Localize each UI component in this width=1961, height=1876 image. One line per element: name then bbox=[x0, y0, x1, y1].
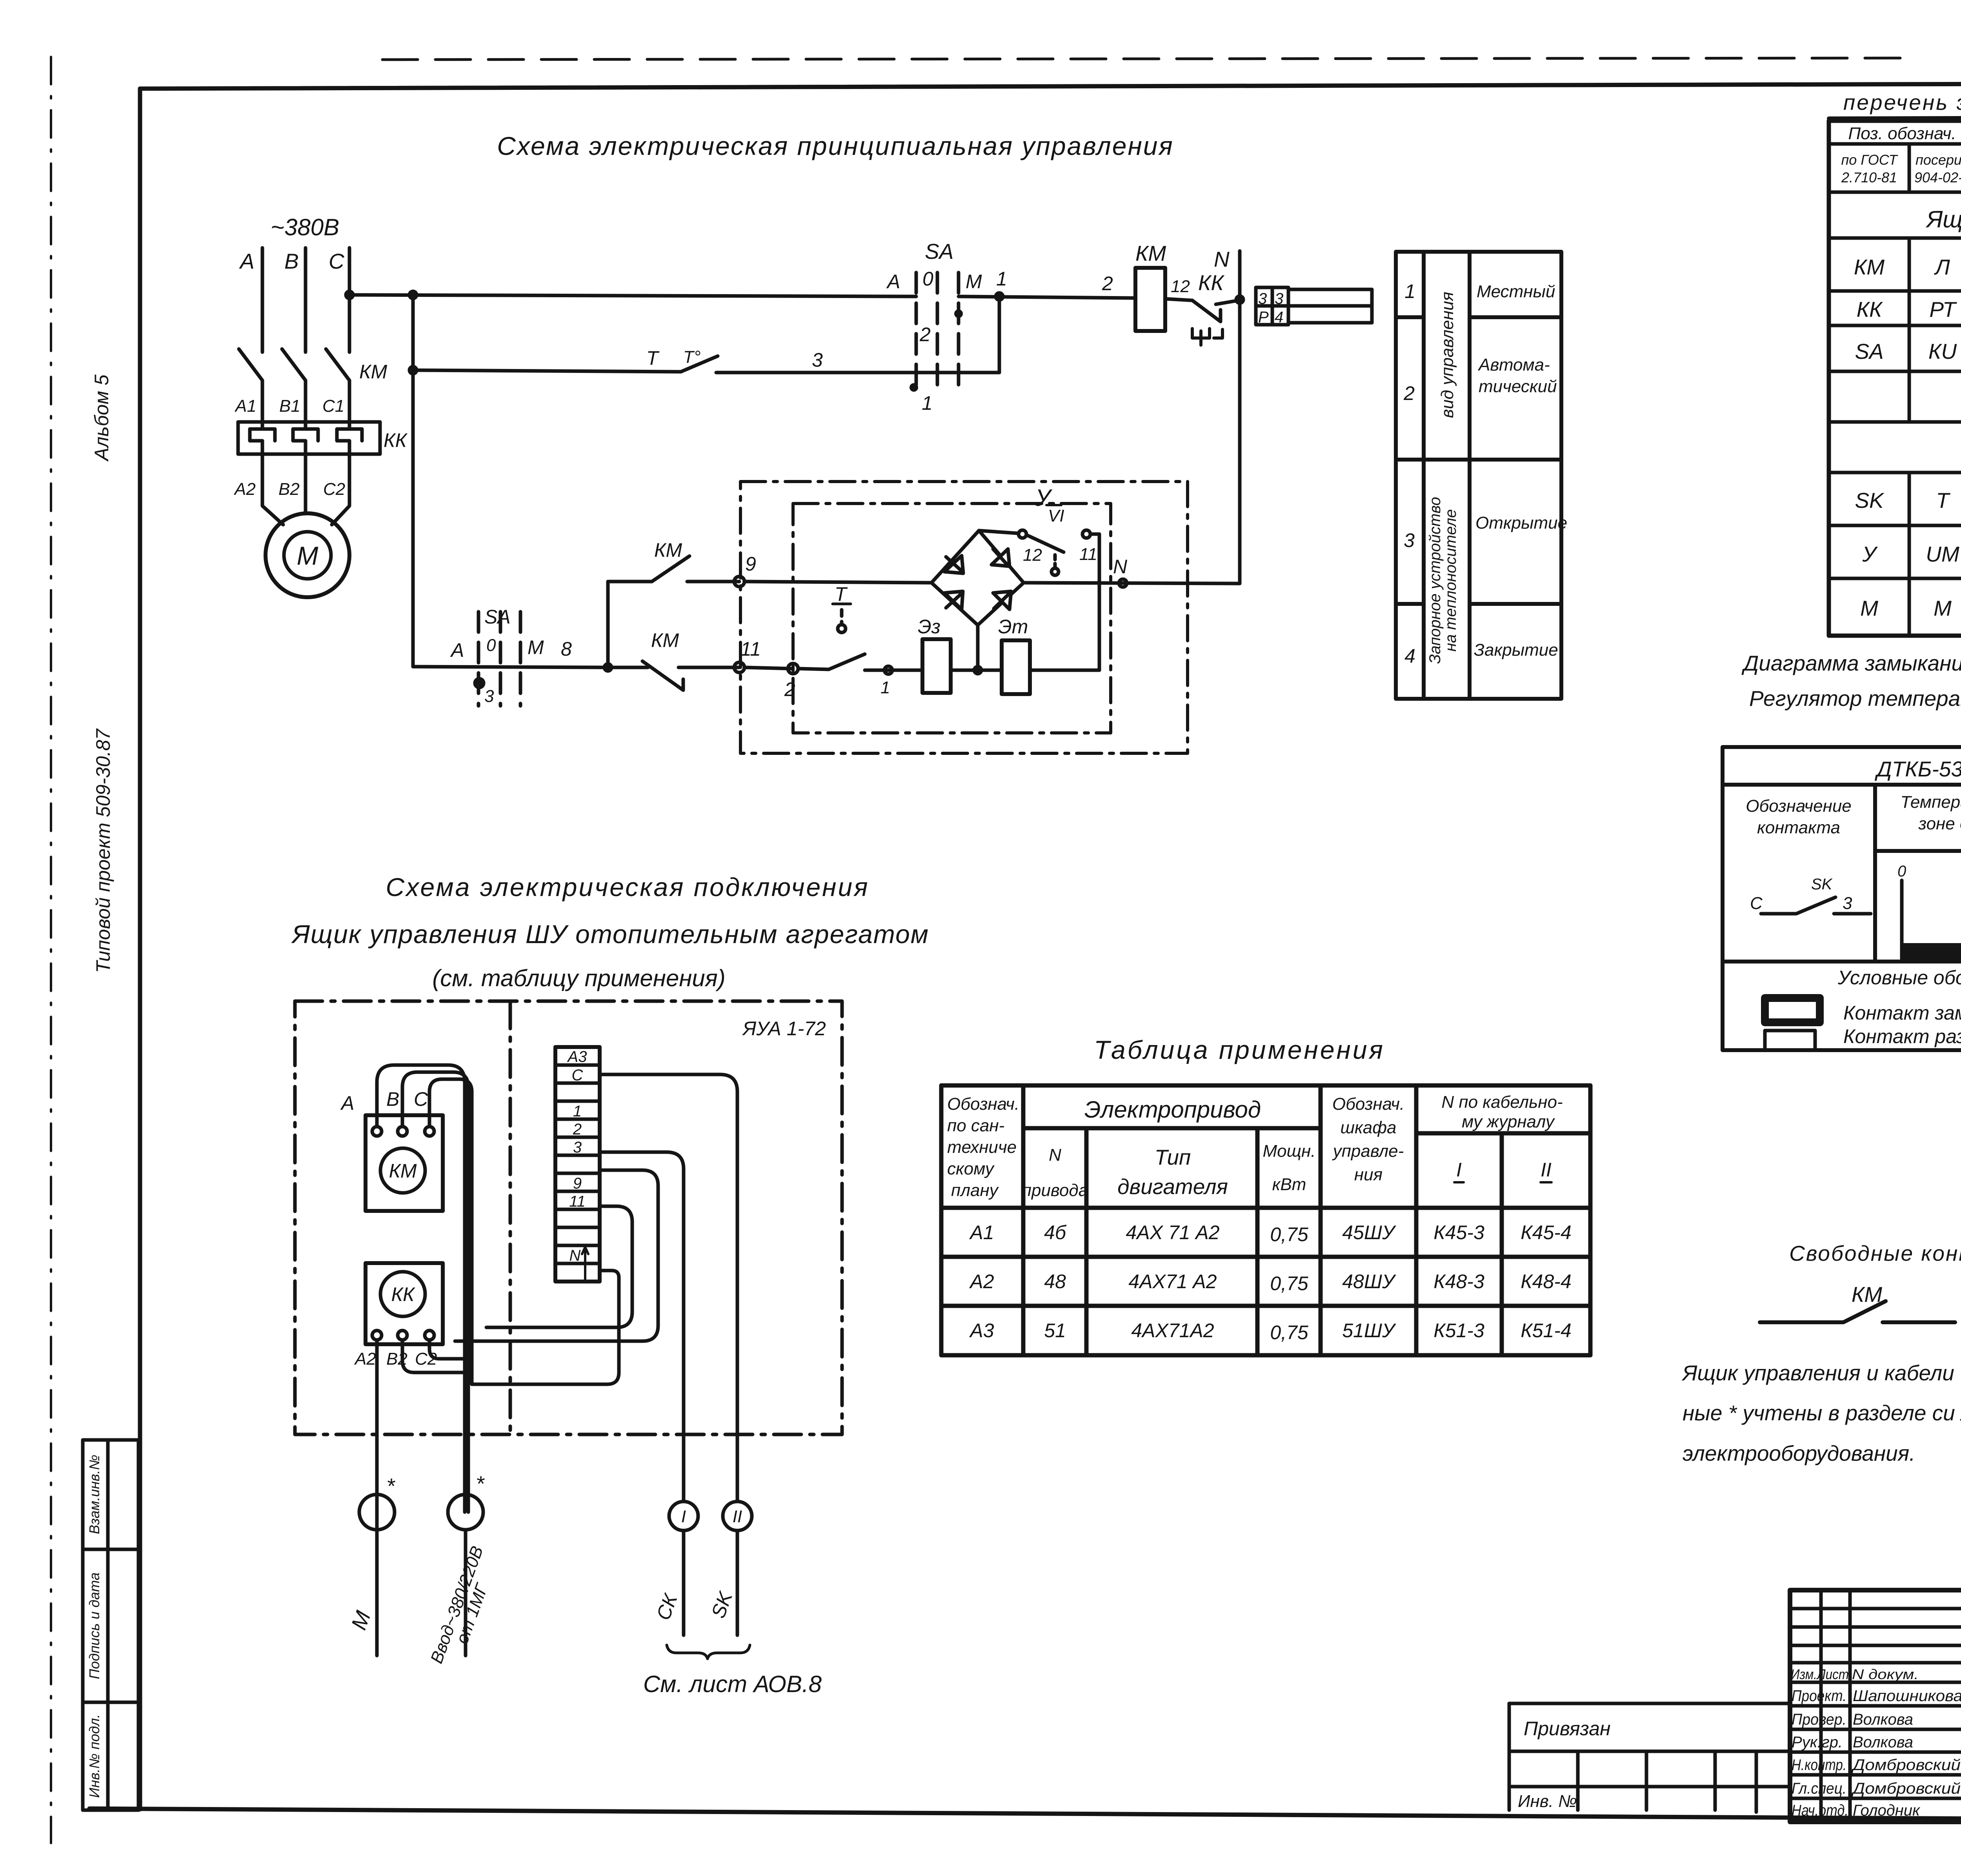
svg-text:II: II bbox=[1541, 1159, 1552, 1181]
svg-text:Т: Т bbox=[646, 347, 660, 369]
svg-text:ЯУА 1-72: ЯУА 1-72 bbox=[742, 1018, 826, 1040]
labels A B C bbox=[340, 1088, 428, 1114]
svg-text:КК: КК bbox=[384, 429, 407, 451]
svg-text:КМ: КМ bbox=[651, 629, 679, 651]
svg-text:4: 4 bbox=[1275, 309, 1283, 326]
svg-text:по сан-: по сан- bbox=[947, 1116, 1004, 1135]
svg-text:А: А bbox=[886, 271, 900, 293]
svg-text:N: N bbox=[1113, 556, 1128, 578]
label T bbox=[646, 347, 700, 369]
label T device bbox=[835, 583, 848, 605]
svg-text:К45-3: К45-3 bbox=[1433, 1222, 1484, 1243]
device U inner boundary (dash-dot) bbox=[793, 504, 1111, 733]
svg-text:Домбровский: Домбровский bbox=[1851, 1780, 1961, 1797]
svg-text:SK: SK bbox=[1811, 876, 1833, 893]
wire KM phase B to supply bbox=[402, 1072, 468, 1294]
svg-text:Домбровский: Домбровский bbox=[1851, 1756, 1961, 1774]
thermostat contact T (SK) bbox=[413, 356, 999, 373]
svg-text:Подпись и дата: Подпись и дата bbox=[86, 1572, 102, 1679]
svg-text:9: 9 bbox=[745, 553, 756, 575]
wire number 3 bbox=[812, 349, 823, 371]
wire phase A lower bbox=[261, 454, 264, 499]
svg-text:Изм.Лист: Изм.Лист bbox=[1791, 1666, 1849, 1682]
svg-text:М: М bbox=[1860, 596, 1878, 620]
wire lower horizontal to KM contacts bbox=[413, 664, 611, 671]
wire riser to VI contact bbox=[1098, 534, 1101, 670]
svg-text:Открытие: Открытие bbox=[1475, 513, 1567, 533]
svg-text:А: А bbox=[239, 249, 255, 273]
svg-text:(см. таблицу применения): (см. таблицу применения) bbox=[432, 965, 725, 991]
label 11v bbox=[1079, 545, 1097, 564]
svg-text:Гл.спец.: Гл.спец. bbox=[1792, 1780, 1846, 1797]
svg-text:N по кабельно-: N по кабельно- bbox=[1441, 1093, 1563, 1112]
SA II position labels bbox=[450, 636, 572, 706]
svg-text:контакта: контакта bbox=[1757, 818, 1840, 837]
svg-text:А: А bbox=[450, 639, 464, 661]
label VI bbox=[1046, 505, 1064, 525]
thermal relay KK heaters box bbox=[238, 422, 380, 454]
svg-text:I: I bbox=[681, 1507, 686, 1526]
svg-text:Таблица применения: Таблица применения bbox=[1094, 1035, 1385, 1064]
svg-text:А2: А2 bbox=[354, 1349, 376, 1369]
svg-text:0,75: 0,75 bbox=[1270, 1272, 1308, 1294]
svg-text:3: 3 bbox=[573, 1139, 582, 1156]
svg-text:двигателя: двигателя bbox=[1117, 1174, 1228, 1199]
svg-text:КU: КU bbox=[1928, 339, 1957, 364]
cabinet internal partition (dash-dot) bbox=[509, 1001, 512, 1434]
strip N arrow bbox=[582, 1247, 588, 1279]
svg-text:Провер.: Провер. bbox=[1792, 1711, 1846, 1728]
svg-text:Поз. обознач.: Поз. обознач. bbox=[1848, 124, 1956, 143]
label KM coil bbox=[1135, 241, 1166, 265]
svg-text:У: У bbox=[1862, 542, 1878, 566]
label KM aux NO bbox=[654, 539, 682, 561]
node A1 label bbox=[234, 396, 256, 416]
svg-text:Н.контр.: Н.контр. bbox=[1792, 1756, 1846, 1774]
svg-text:РТ: РТ bbox=[1929, 297, 1957, 322]
svg-text:Л: Л bbox=[1934, 255, 1950, 279]
svg-text:3: 3 bbox=[1258, 290, 1267, 307]
svg-text:К48-4: К48-4 bbox=[1521, 1271, 1572, 1292]
svg-text:1: 1 bbox=[996, 268, 1007, 290]
svg-text:9: 9 bbox=[573, 1175, 582, 1192]
contactor KM main contact pole B bbox=[282, 349, 306, 422]
wire KM phase C to supply bbox=[429, 1079, 472, 1294]
svg-text:11: 11 bbox=[569, 1193, 586, 1210]
svg-text:48: 48 bbox=[1044, 1271, 1066, 1292]
node A phase label bbox=[239, 249, 255, 273]
coil ET bbox=[1002, 640, 1030, 694]
wire left long drop to lower SA bbox=[411, 370, 415, 667]
svg-text:*: * bbox=[476, 1471, 485, 1496]
cable marker box 3/P 3/4 bbox=[1256, 287, 1372, 325]
APPLICATION-TABLE bbox=[1094, 1035, 1385, 1064]
svg-text:1: 1 bbox=[880, 678, 890, 697]
svg-text:Обозначение: Обозначение bbox=[1746, 796, 1852, 816]
SCHEMATIC-1 title bbox=[497, 131, 1173, 160]
label KK contact bbox=[1198, 271, 1224, 295]
DTKB legend bbox=[1837, 967, 1961, 1047]
svg-text:Рук.гр.: Рук.гр. bbox=[1792, 1734, 1843, 1751]
label EZ bbox=[918, 616, 940, 638]
MARGIN-TABLE bbox=[83, 1440, 138, 1810]
label KK heaters bbox=[384, 429, 407, 451]
MARGIN-TEXT bbox=[91, 57, 1961, 973]
svg-text:2: 2 bbox=[573, 1121, 582, 1138]
svg-text:Типовой проект 509-30.87: Типовой проект 509-30.87 bbox=[92, 728, 114, 973]
svg-text:К48-3: К48-3 bbox=[1433, 1271, 1484, 1292]
svg-text:Шапошникова: Шапошникова bbox=[1853, 1687, 1961, 1705]
switch T in device (manual) bbox=[829, 604, 865, 669]
strip terminal labels bbox=[567, 1048, 587, 1264]
svg-text:3: 3 bbox=[1843, 894, 1852, 913]
wire branch to T-contact line bbox=[409, 295, 417, 374]
label ET bbox=[998, 616, 1028, 638]
svg-text:Запорное устройство: Запорное устройство bbox=[1426, 497, 1444, 664]
SA contact position dots bbox=[910, 309, 963, 392]
wire number 2 bbox=[1102, 273, 1113, 294]
net ~380V label bbox=[271, 214, 339, 240]
svg-text:~380В: ~380В bbox=[271, 214, 339, 240]
svg-text:*: * bbox=[386, 1474, 395, 1498]
svg-text:II: II bbox=[733, 1507, 742, 1526]
cable II circle bbox=[723, 1502, 752, 1635]
svg-text:11: 11 bbox=[740, 638, 761, 660]
svg-text:Т: Т bbox=[835, 583, 848, 605]
svg-text:904-02-9: 904-02-9 bbox=[1914, 169, 1961, 185]
svg-text:1: 1 bbox=[1404, 280, 1415, 302]
contactor KM aux NO contact (9 line) bbox=[608, 556, 739, 582]
wire number 12 bbox=[1171, 277, 1190, 296]
rotated labels CK SK bbox=[652, 1588, 737, 1623]
svg-text:0: 0 bbox=[1897, 863, 1906, 880]
svg-text:скому: скому bbox=[947, 1159, 995, 1178]
label KM main contacts bbox=[359, 361, 387, 383]
NOTE-PARAGRAPH bbox=[1681, 1361, 1961, 1465]
svg-text:А2: А2 bbox=[233, 480, 256, 499]
svg-text:UМ: UМ bbox=[1926, 542, 1959, 566]
svg-text:Контакт замкнут: Контакт замкнут bbox=[1843, 1002, 1961, 1024]
svg-text:В: В bbox=[284, 249, 299, 273]
DTKB contact symbol C-SK-3 bbox=[1761, 897, 1871, 914]
label SA bbox=[925, 239, 953, 264]
wire ET to riser bbox=[1030, 669, 1099, 672]
svg-text:Т: Т bbox=[1936, 488, 1950, 513]
svg-text:Волкова: Волкова bbox=[1853, 1711, 1913, 1728]
wire C2 to motor bbox=[332, 499, 349, 525]
supply cable marker circle bbox=[448, 1494, 483, 1656]
svg-text:2: 2 bbox=[1102, 273, 1113, 294]
wire KK B2 bundle bbox=[402, 1340, 472, 1372]
svg-text:3: 3 bbox=[1404, 529, 1415, 551]
free contact KM symbol bbox=[1760, 1301, 1955, 1322]
svg-text:Контакт разомкнут: Контакт разомкнут bbox=[1843, 1025, 1961, 1047]
svg-text:0,75: 0,75 bbox=[1270, 1223, 1308, 1245]
svg-text:К45-4: К45-4 bbox=[1521, 1222, 1572, 1243]
wire riser to 9-line bbox=[606, 582, 610, 667]
wire phase B upper bbox=[304, 248, 307, 352]
svg-text:Взам.инв.№: Взам.инв.№ bbox=[86, 1455, 102, 1534]
svg-text:Обознач.: Обознач. bbox=[1332, 1094, 1404, 1114]
svg-text:М: М bbox=[528, 636, 544, 658]
svg-text:Т°: Т° bbox=[683, 347, 700, 367]
contactor KM aux NC contact (11 line) bbox=[608, 661, 739, 690]
wire bundle down right of KK bbox=[468, 1294, 472, 1512]
wire KK C2 bundle bbox=[429, 1340, 472, 1359]
wire bridge top to VI contact bbox=[979, 530, 1026, 538]
wire bridge bottom to EZ/ET mid bbox=[976, 625, 980, 670]
label N bbox=[1214, 247, 1230, 271]
svg-text:45ШУ: 45ШУ bbox=[1342, 1222, 1397, 1243]
wire A2 to motor bbox=[262, 499, 283, 525]
svg-text:SA: SA bbox=[484, 606, 511, 628]
svg-text:1: 1 bbox=[573, 1103, 582, 1120]
SA II position dot bbox=[475, 679, 484, 687]
wire EZ to ET bbox=[951, 667, 1002, 674]
svg-text:I: I bbox=[1456, 1159, 1462, 1181]
motor cable marker circle bbox=[359, 1494, 395, 1656]
svg-text:Электропривод: Электропривод bbox=[1084, 1096, 1261, 1123]
svg-text:КМ: КМ bbox=[389, 1160, 417, 1182]
svg-text:М: М bbox=[346, 1608, 375, 1633]
label N terminal bbox=[1113, 556, 1128, 578]
limit switch VI contact bbox=[1026, 530, 1099, 575]
terminal 1 bbox=[865, 666, 922, 674]
svg-text:3: 3 bbox=[1275, 290, 1283, 307]
svg-text:Привязан: Привязан bbox=[1524, 1718, 1611, 1740]
wire B2 to motor bbox=[304, 499, 307, 514]
contactor coil KM bbox=[1135, 268, 1165, 331]
svg-text:Волкова: Волкова bbox=[1853, 1734, 1913, 1751]
DIAGRAM-DTKB table bbox=[1741, 651, 1961, 711]
svg-text:С: С bbox=[1750, 894, 1763, 913]
TITLEBLOCK bbox=[1509, 1590, 1961, 1825]
wire control bus top (from phase C) bbox=[346, 291, 916, 298]
FREE-CONTACTS note bbox=[1789, 1241, 1961, 1307]
wire strip C to cable II bbox=[600, 1074, 737, 1502]
rotated label M bbox=[346, 1608, 375, 1633]
svg-text:N: N bbox=[569, 1247, 581, 1264]
label U bbox=[1035, 485, 1053, 511]
svg-text:ния: ния bbox=[1354, 1165, 1383, 1184]
labels A2 B2 C2 bbox=[354, 1349, 437, 1369]
svg-text:2: 2 bbox=[784, 678, 795, 700]
svg-text:В2: В2 bbox=[278, 480, 300, 499]
thermal relay KK NC contact bbox=[1165, 299, 1239, 345]
terminal 9 bbox=[734, 576, 931, 587]
svg-text:КМ: КМ bbox=[359, 361, 387, 383]
svg-text:на теплоносителе: на теплоносителе bbox=[1442, 509, 1459, 651]
svg-text:ные * учтены в разделе с: ные * учтены в разделе си лового bbox=[1683, 1401, 1961, 1425]
svg-text:управле-: управле- bbox=[1332, 1142, 1404, 1161]
node B phase label bbox=[284, 249, 299, 273]
asterisk marks bbox=[386, 1471, 485, 1498]
svg-text:Диаграмма замыкания контактов: Диаграмма замыкания контактов bbox=[1741, 651, 1961, 675]
wire KM phase A to supply bbox=[377, 1065, 465, 1512]
svg-text:КМ: КМ bbox=[1135, 241, 1166, 265]
wire bridge right to N bbox=[1024, 579, 1240, 587]
svg-text:См. лист АОВ.8: См. лист АОВ.8 bbox=[643, 1671, 822, 1697]
label YaUA 1-72 bbox=[742, 1018, 826, 1040]
wire phase C upper bbox=[348, 248, 351, 352]
svg-text:тический: тический bbox=[1479, 377, 1557, 396]
svg-text:Регулятор температуры SK: Регулятор температуры SK bbox=[1749, 686, 1961, 711]
svg-text:С: С bbox=[414, 1088, 428, 1110]
contactor KM main contact pole A bbox=[239, 349, 262, 422]
svg-text:КК: КК bbox=[391, 1283, 415, 1305]
svg-text:В: В bbox=[386, 1088, 399, 1110]
svg-text:перечень элементов принципи: перечень элементов принципиальной схемы … bbox=[1843, 90, 1961, 115]
cabinet YaUA boundary (dash-dot) bbox=[295, 1001, 842, 1434]
svg-text:4АХ71А2: 4АХ71А2 bbox=[1131, 1320, 1214, 1342]
cable I circle bbox=[669, 1502, 698, 1635]
svg-text:Эз: Эз bbox=[918, 616, 940, 638]
svg-text:шкафа: шкафа bbox=[1341, 1118, 1397, 1137]
svg-text:N докум.: N докум. bbox=[1852, 1666, 1919, 1682]
svg-text:N: N bbox=[1049, 1145, 1061, 1165]
wire strip 11 down bbox=[486, 1206, 632, 1327]
SA position labels A 0 M bbox=[886, 268, 1007, 414]
svg-text:Нач.отд.: Нач.отд. bbox=[1792, 1802, 1848, 1819]
svg-text:0,75: 0,75 bbox=[1270, 1322, 1308, 1343]
svg-text:Условные обозначения: Условные обозначения bbox=[1837, 967, 1961, 989]
svg-text:VI: VI bbox=[1048, 506, 1064, 525]
svg-text:зоне обслуживания: зоне обслуживания bbox=[1918, 814, 1961, 833]
svg-text:48ШУ: 48ШУ bbox=[1342, 1271, 1397, 1292]
contactor KM main contact pole C bbox=[326, 349, 349, 422]
wire bus to KM coil bbox=[959, 296, 1135, 298]
switch SA section II (bars) bbox=[478, 612, 520, 706]
svg-text:3: 3 bbox=[812, 349, 823, 371]
node C phase label bbox=[329, 249, 345, 273]
motor M bbox=[266, 513, 349, 597]
svg-text:В1: В1 bbox=[279, 396, 300, 416]
node N vertical wire bbox=[1238, 251, 1242, 584]
svg-text:А1: А1 bbox=[969, 1222, 994, 1243]
svg-text:2.710-81: 2.710-81 bbox=[1841, 169, 1897, 185]
wire strip N down bbox=[472, 1271, 619, 1384]
svg-text:Ящик управления ШУ (ЯУА1-72)-с: Ящик управления ШУ (ЯУА1-72)-см.таблицу … bbox=[1926, 206, 1961, 233]
rotated label Vvod bbox=[427, 1543, 492, 1666]
svg-text:SA: SA bbox=[1855, 339, 1883, 364]
node B1 label bbox=[279, 396, 300, 416]
label SA section II bbox=[484, 606, 511, 628]
svg-text:4б: 4б bbox=[1044, 1222, 1067, 1243]
wire phase B lower bbox=[304, 454, 307, 499]
wire riser from T line to bus bbox=[996, 293, 1003, 373]
wire KK A2 to motor cable bbox=[375, 1340, 379, 1495]
svg-text:4АХ71 А2: 4АХ71 А2 bbox=[1128, 1271, 1217, 1292]
svg-text:М: М bbox=[297, 541, 318, 570]
svg-text:SK: SK bbox=[707, 1588, 737, 1621]
svg-text:1: 1 bbox=[922, 392, 933, 414]
svg-text:Местный: Местный bbox=[1477, 282, 1555, 301]
device U outer boundary (dash-dot) bbox=[740, 482, 1188, 753]
svg-text:кВт: кВт bbox=[1272, 1175, 1306, 1194]
node B2 label bbox=[278, 480, 300, 499]
brace under cables bbox=[667, 1645, 750, 1659]
svg-text:2: 2 bbox=[1403, 382, 1415, 404]
svg-text:Тип: Тип bbox=[1155, 1145, 1191, 1169]
svg-text:С: С bbox=[572, 1067, 584, 1084]
wire to N bbox=[1236, 296, 1243, 303]
wire strip 9 down bbox=[455, 1170, 658, 1341]
svg-text:Проект.: Проект. bbox=[1792, 1687, 1846, 1705]
svg-text:СК: СК bbox=[652, 1591, 682, 1623]
svg-text:посерии: посерии bbox=[1916, 152, 1961, 168]
diode bridge VD bbox=[931, 531, 1024, 625]
LEGEND-TABLE vid upravleniya bbox=[1396, 252, 1561, 699]
svg-text:А3: А3 bbox=[567, 1048, 587, 1065]
svg-text:Эт: Эт bbox=[998, 616, 1028, 638]
svg-text:3: 3 bbox=[484, 687, 494, 706]
svg-text:КК: КК bbox=[1198, 271, 1224, 295]
terminal 2 bbox=[788, 664, 829, 674]
wire phase A upper bbox=[261, 248, 264, 352]
svg-text:8: 8 bbox=[561, 638, 572, 660]
svg-text:привода: привода bbox=[1022, 1181, 1088, 1200]
svg-text:К51-3: К51-3 bbox=[1433, 1320, 1484, 1342]
PARTS-LIST table bbox=[1829, 90, 1961, 636]
svg-text:51ШУ: 51ШУ bbox=[1342, 1320, 1397, 1342]
svg-text:КК: КК bbox=[1857, 297, 1883, 322]
svg-text:КМ: КМ bbox=[654, 539, 682, 561]
switch SA section I (bars) bbox=[916, 273, 959, 389]
svg-text:А: А bbox=[340, 1092, 354, 1114]
thermal relay KK box bbox=[366, 1263, 443, 1344]
svg-text:4АХ 71 А2: 4АХ 71 А2 bbox=[1126, 1222, 1219, 1243]
svg-text:С: С bbox=[329, 249, 345, 273]
wire strip 3 to cable I bbox=[600, 1152, 684, 1502]
svg-text:11: 11 bbox=[1079, 545, 1097, 564]
svg-text:Ящик управления ШУ отопительны: Ящик управления ШУ отопительным агрегато… bbox=[291, 920, 929, 949]
svg-text:N: N bbox=[1214, 247, 1230, 271]
svg-text:электрооборудования.: электрооборудования. bbox=[1683, 1441, 1915, 1465]
svg-text:Инв. №: Инв. № bbox=[1518, 1792, 1577, 1811]
svg-text:0: 0 bbox=[486, 636, 496, 655]
see sheet note bbox=[643, 1671, 822, 1697]
contactor KM box bbox=[366, 1115, 443, 1211]
PRIVYAZAN-BOX bbox=[1509, 1703, 1790, 1812]
svg-text:Схема электрическая подключен: Схема электрическая подключения bbox=[386, 873, 870, 902]
coil EZ bbox=[922, 639, 951, 693]
svg-text:Свободные контакты: Свободные контакты bbox=[1789, 1241, 1961, 1265]
svg-text:Обознач.: Обознач. bbox=[947, 1094, 1019, 1114]
svg-text:Голодник: Голодник bbox=[1853, 1802, 1921, 1819]
node C1 label bbox=[322, 396, 344, 416]
svg-text:SK: SK bbox=[1855, 488, 1885, 513]
label 12 bbox=[1023, 545, 1042, 565]
svg-text:КМ: КМ bbox=[1854, 255, 1885, 279]
DTKB temperature scale bbox=[1902, 880, 1961, 960]
svg-text:4: 4 bbox=[1404, 645, 1415, 667]
CONNECTION-DIAGRAM titles bbox=[291, 873, 929, 991]
svg-text:51: 51 bbox=[1044, 1320, 1066, 1342]
svg-text:по ГОСТ: по ГОСТ bbox=[1841, 152, 1898, 168]
svg-text:12: 12 bbox=[1023, 545, 1042, 565]
svg-text:SA: SA bbox=[925, 239, 953, 264]
svg-text:Р: Р bbox=[1258, 309, 1269, 326]
svg-text:К51-4: К51-4 bbox=[1521, 1320, 1572, 1342]
svg-text:Температура воздуха в: Температура воздуха в bbox=[1901, 793, 1961, 812]
svg-text:плану: плану bbox=[951, 1181, 999, 1200]
svg-text:М: М bbox=[1934, 596, 1952, 620]
svg-text:техниче: техниче bbox=[947, 1138, 1017, 1157]
svg-text:Альбом 5: Альбом 5 bbox=[91, 374, 113, 462]
node C2 label bbox=[323, 480, 345, 499]
node A2 label bbox=[233, 480, 256, 499]
svg-text:12: 12 bbox=[1171, 277, 1190, 296]
